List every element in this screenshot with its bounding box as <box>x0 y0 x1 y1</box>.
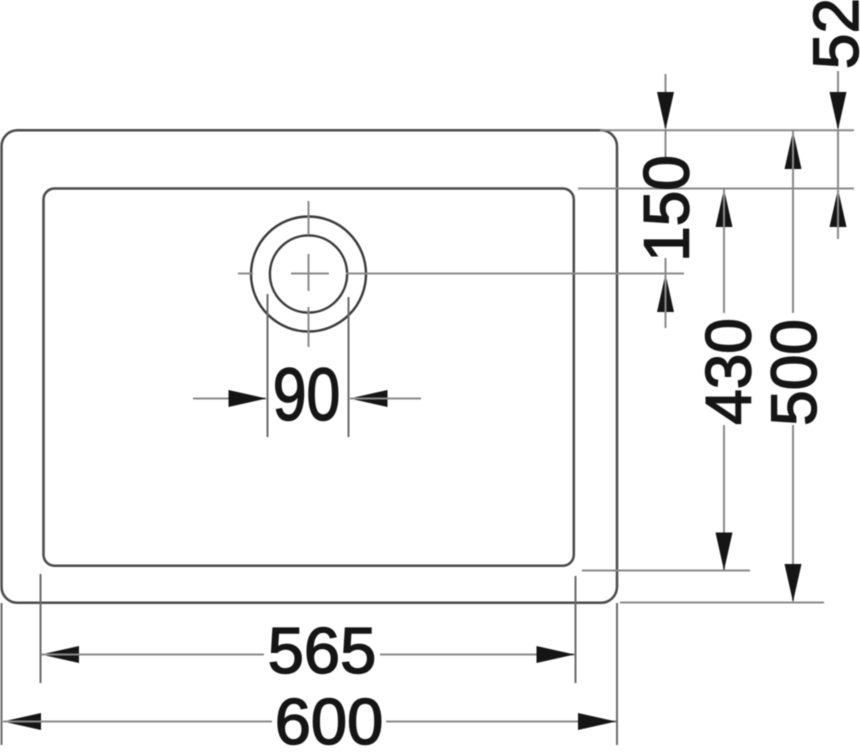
svg-text:500: 500 <box>758 319 830 426</box>
dimension 565 line left <box>41 654 264 656</box>
extension line: inner bottom edge to right <box>582 570 750 572</box>
dimension 565 arrow left <box>41 646 79 663</box>
dimension 150 arrow down <box>657 92 674 130</box>
extension line: outer top edge to right <box>600 129 854 131</box>
dimension 430 arrow up <box>716 189 733 227</box>
dimension 600 line left <box>3 721 272 723</box>
dimension 430 line lower <box>723 425 725 570</box>
svg-text:90: 90 <box>273 354 340 436</box>
dimension 150 line lower gap segment <box>665 258 667 273</box>
dimension 52 line between <box>837 130 839 189</box>
extension line: outer left edge downward <box>1 603 3 745</box>
dimension 150 leader top <box>665 74 667 128</box>
dimension 150 arrow up at centerline <box>657 274 674 312</box>
svg-text:565: 565 <box>268 614 376 687</box>
horizontal centerline of drain <box>238 273 684 275</box>
dimension 90 leader left <box>193 398 266 400</box>
dimension 90 arrow right <box>229 390 267 407</box>
extension line: drain left for 90 <box>267 294 269 437</box>
extension line: inner top edge to right <box>578 188 854 190</box>
dimension 500 arrow up <box>785 131 802 169</box>
svg-text:600: 600 <box>275 685 383 752</box>
dimension 150 leader bottom <box>665 274 667 328</box>
dimension 565 arrow right <box>537 646 575 663</box>
dimension 52 leader bottom <box>837 190 839 239</box>
dimension 90 arrow left <box>350 390 388 407</box>
extension line: outer right edge downward <box>616 603 618 745</box>
svg-text:430: 430 <box>693 318 765 425</box>
extension line: bowl right for 565 <box>575 576 577 683</box>
drain outer circle <box>251 217 366 332</box>
extension line: drain right for 90 <box>348 297 350 437</box>
dimension 500 line upper <box>792 131 794 313</box>
extension line: outer bottom edge to right <box>620 602 824 604</box>
dimension 52 arrow up <box>830 189 847 227</box>
drain inner circle <box>270 235 347 312</box>
dimension 90 leader right <box>350 398 421 400</box>
inner bowl rectangle <box>44 189 574 566</box>
dimension 600 arrow right <box>578 713 616 730</box>
extension line: bowl left for 565 <box>40 574 42 683</box>
dimension 430 arrow down <box>716 533 733 571</box>
dimension 150 line upper gap segment <box>665 130 667 157</box>
dimension 52 arrow down <box>830 92 847 130</box>
dimension 430 line upper <box>723 189 725 313</box>
dimension 600 arrow left <box>3 713 41 730</box>
dimension 565 line right <box>380 654 575 656</box>
vertical centerline of drain <box>308 201 310 347</box>
dimension 600 line right <box>386 721 616 723</box>
dimension 500 line lower <box>792 425 794 601</box>
svg-text:52: 52 <box>800 0 860 69</box>
dimension 500 arrow down <box>785 564 802 602</box>
dimension 52 leader top <box>837 71 839 128</box>
svg-text:150: 150 <box>631 155 703 262</box>
outer sink rim rectangle <box>2 130 618 603</box>
